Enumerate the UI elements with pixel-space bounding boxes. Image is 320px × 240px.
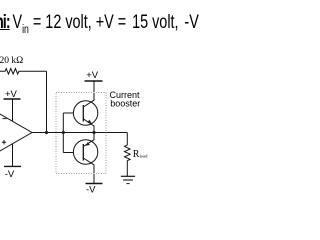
- node junction bases: [62, 131, 65, 134]
- resistor Rload: [125, 133, 131, 177]
- wire base top: [63, 112, 83, 114]
- transistor Q2 emitter: [83, 133, 94, 147]
- transistor Q1 emitter: [83, 119, 94, 133]
- op-amp -V supply: [12, 144, 14, 167]
- wire base vertical: [62, 113, 64, 153]
- transistor Q1 bar: [82, 105, 84, 122]
- booster +V supply: [93, 81, 95, 100]
- svg-text:+V: +V: [5, 89, 18, 100]
- svg-text:-V: -V: [5, 169, 15, 180]
- wire feedback vertical: [46, 71, 48, 132]
- node junction output: [92, 131, 95, 134]
- svg-text:booster: booster: [110, 98, 140, 108]
- op-amp U1: [0, 110, 32, 156]
- node junction feedback: [45, 131, 48, 134]
- transistor Q2 collector: [83, 158, 94, 184]
- transistor Q2 bar: [82, 144, 84, 161]
- svg-text:-V: -V: [86, 185, 96, 196]
- title text: [0, 13, 222, 40]
- dashed current booster box: [56, 93, 106, 174]
- transistor Q1 emitter arrow: [87, 120, 92, 124]
- ground: [121, 175, 135, 177]
- op-amp inverting input marker: [3, 118, 7, 120]
- transistor Q1 NPN circle: [73, 101, 97, 125]
- transistor Q2 PNP circle: [73, 140, 97, 164]
- transistor Q2 emitter arrow: [85, 142, 90, 146]
- op-amp +V supply: [12, 99, 14, 121]
- wire output horizontal: [32, 132, 127, 134]
- op-amp non-inverting input marker: [2, 140, 6, 144]
- svg-text:+V: +V: [86, 70, 99, 81]
- svg-text:20 kΩ: 20 kΩ: [0, 56, 23, 66]
- wire base bottom: [63, 152, 83, 154]
- booster -V supply: [86, 183, 103, 185]
- svg-text:Rload: Rload: [133, 149, 148, 160]
- transistor Q1 collector: [83, 81, 94, 107]
- resistor R1 20k zigzag: [0, 69, 47, 75]
